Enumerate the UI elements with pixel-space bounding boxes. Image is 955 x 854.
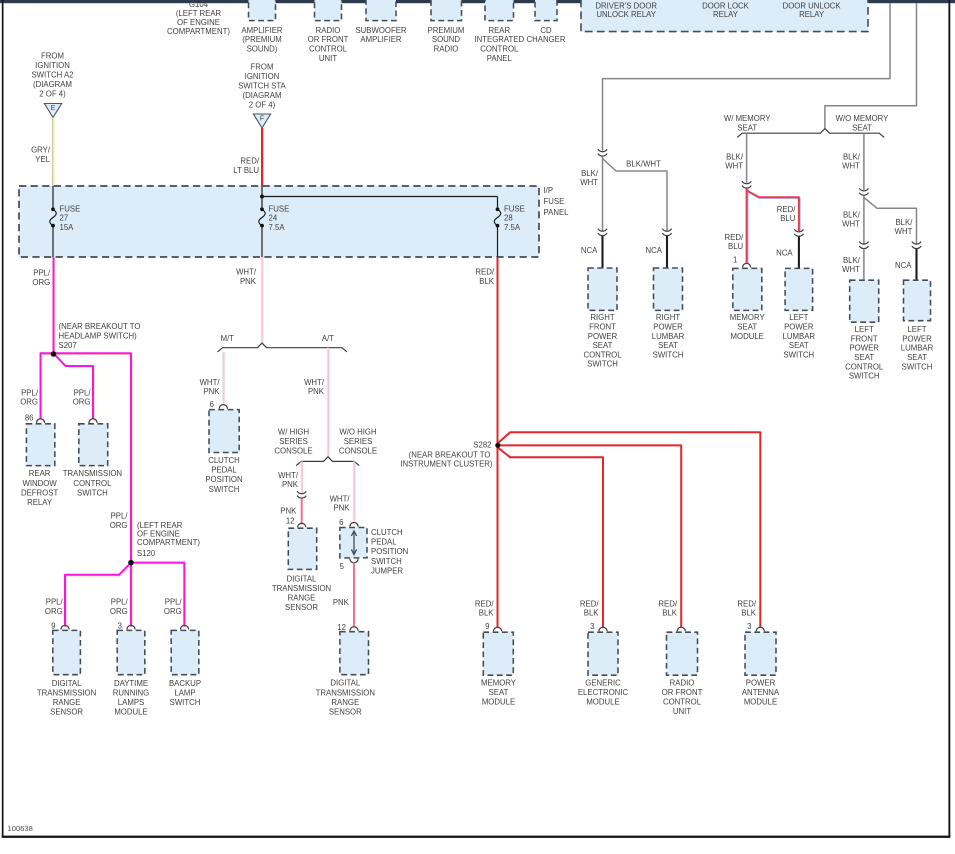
svg-text:SERIES: SERIES (279, 437, 308, 446)
svg-text:CONTROL: CONTROL (480, 45, 519, 54)
svg-text:PPL/: PPL/ (111, 512, 129, 521)
svg-text:SEAT: SEAT (852, 123, 872, 132)
svg-text:(NEAR BREAKOUT TO: (NEAR BREAKOUT TO (409, 451, 491, 460)
svg-text:SOUND): SOUND) (247, 45, 278, 54)
svg-text:CONTROL: CONTROL (309, 45, 348, 54)
svg-text:RIGHT: RIGHT (656, 313, 680, 322)
svg-text:OR FRONT: OR FRONT (308, 35, 349, 44)
svg-text:SWITCH A2: SWITCH A2 (31, 71, 73, 80)
label NCA (4) (895, 261, 912, 270)
svg-text:RANGE: RANGE (288, 594, 316, 603)
svg-text:TRANSMISSION: TRANSMISSION (63, 469, 122, 478)
wire RED/BLK branch to radio or front control unit (500, 445, 681, 627)
svg-text:FUSE: FUSE (60, 204, 81, 213)
connector w/o memory split (859, 188, 868, 195)
svg-text:TRANSMISSION: TRANSMISSION (37, 688, 96, 697)
svg-text:LAMPS: LAMPS (118, 698, 144, 707)
svg-text:ORG: ORG (110, 521, 128, 530)
svg-text:FUSE: FUSE (544, 197, 565, 206)
pin 5 clutch pedal position switch jumper (340, 562, 345, 571)
connector triangle F (253, 114, 270, 128)
wire NCA to right front power seat control switch (601, 236, 603, 268)
label BLK/WHT w/ memory (725, 152, 744, 170)
component clutch pedal position switch (205, 410, 242, 494)
svg-text:ANTENNA: ANTENNA (742, 688, 780, 697)
svg-text:RANGE: RANGE (53, 698, 81, 707)
svg-text:POWER: POWER (746, 678, 776, 687)
svg-text:MEMORY: MEMORY (481, 678, 517, 687)
svg-text:UNLOCK RELAY: UNLOCK RELAY (596, 10, 656, 19)
svg-text:PPL/: PPL/ (165, 598, 183, 607)
label PPL/ORG (to S120) (110, 512, 129, 530)
svg-text:7.5A: 7.5A (269, 223, 286, 232)
svg-text:SWITCH: SWITCH (170, 698, 201, 707)
svg-text:3: 3 (118, 622, 122, 631)
svg-text:WHT: WHT (842, 161, 860, 170)
label I/P FUSE PANEL (544, 186, 570, 217)
node S120 junction dot (128, 560, 134, 566)
svg-text:POWER: POWER (849, 344, 879, 353)
label BLK/WHT (branch) (895, 218, 914, 236)
svg-text:SWITCH: SWITCH (902, 362, 933, 371)
label RED/BLK (main) (475, 267, 494, 286)
pin 9 digital transmission range sensor (51, 622, 55, 631)
svg-text:SEAT: SEAT (737, 123, 757, 132)
wire jumper to fuse 28 (262, 196, 498, 198)
svg-text:SWITCH: SWITCH (849, 372, 880, 381)
wire NCA to right power lumbar seat switch (666, 236, 668, 268)
wire RED/BLK from fuse 28 through S282 to memory seat module (497, 257, 499, 627)
pin arc digital transmission range sensor (mid) (298, 523, 306, 527)
svg-text:PNK: PNK (308, 387, 325, 396)
svg-text:15A: 15A (60, 223, 75, 232)
svg-text:12: 12 (337, 623, 346, 632)
svg-text:(PREMIUM: (PREMIUM (242, 35, 281, 44)
svg-text:WINDOW: WINDOW (22, 479, 57, 488)
pin 12 digital transmission range sensor (mid) (286, 517, 295, 526)
svg-text:FUSE: FUSE (504, 204, 525, 213)
svg-text:REAR: REAR (29, 469, 51, 478)
svg-text:RELAY: RELAY (799, 10, 825, 19)
label NCA (2) (646, 246, 663, 255)
pin 3 generic electronic module (590, 622, 594, 631)
svg-text:PPL/: PPL/ (21, 388, 39, 397)
svg-text:WHT: WHT (580, 178, 598, 187)
svg-text:CLUTCH: CLUTCH (208, 456, 240, 465)
label RED/BLK (generic electronic module) (580, 600, 599, 618)
svg-text:BLK: BLK (584, 608, 600, 617)
wire BLK/WHT branch to left power lumbar seat switch (2) (864, 198, 917, 244)
svg-text:RADIO: RADIO (670, 678, 695, 687)
svg-text:POSITION: POSITION (205, 475, 242, 484)
svg-text:POWER: POWER (784, 323, 814, 332)
svg-text:NCA: NCA (581, 246, 598, 255)
svg-text:SEAT: SEAT (658, 341, 678, 350)
svg-text:2 OF 4): 2 OF 4) (249, 101, 276, 110)
svg-text:CD: CD (540, 26, 552, 35)
label PNK (w/o high) (333, 598, 350, 607)
wire BLK/WHT branch to right power lumbar seat switch (603, 159, 668, 231)
svg-text:SWITCH: SWITCH (77, 489, 108, 498)
svg-text:HEADLAMP SWITCH): HEADLAMP SWITCH) (59, 331, 138, 340)
svg-text:W/O MEMORY: W/O MEMORY (836, 114, 890, 123)
pin arc memory seat module (lower) (493, 627, 501, 631)
connector above left power lumbar seat switch (2) (912, 242, 921, 249)
svg-text:SWITCH: SWITCH (371, 557, 402, 566)
pin 3 daytime running lamps module (118, 622, 122, 631)
svg-text:MEMORY: MEMORY (730, 313, 766, 322)
svg-text:S282: S282 (473, 441, 491, 450)
wire RED/BLK branch to power antenna module (498, 432, 761, 627)
label PPL/ORG (transmission control switch) (73, 388, 92, 406)
svg-text:M/T: M/T (221, 334, 235, 343)
svg-text:SEAT: SEAT (593, 341, 613, 350)
component digital transmission range sensor (left) (37, 630, 96, 716)
svg-text:BLK/WHT: BLK/WHT (626, 160, 661, 169)
wire PPL/ORG to daytime running lamps module (131, 563, 132, 627)
component right power lumbar seat switch (652, 268, 685, 359)
label W/O MEMORY SEAT (836, 114, 890, 132)
svg-text:(DIAGRAM: (DIAGRAM (243, 91, 282, 100)
svg-text:WHT/: WHT/ (278, 471, 299, 480)
pin 12 digital transmission range sensor (bottom) (337, 623, 346, 632)
pin arc generic electronic module (599, 627, 607, 631)
svg-text:PNK: PNK (333, 598, 350, 607)
svg-text:2 OF 4): 2 OF 4) (39, 90, 66, 99)
svg-text:ORG: ORG (45, 607, 63, 616)
svg-text:3: 3 (590, 622, 594, 631)
connector above left power lumbar seat switch (1) (794, 229, 803, 236)
connector on BLK/WHT wire (598, 149, 607, 156)
svg-text:27: 27 (60, 214, 69, 223)
fuse F28 7.5A (494, 204, 525, 232)
svg-text:ORG: ORG (20, 398, 38, 407)
pin 1 memory seat module (733, 256, 737, 265)
svg-text:RUNNING: RUNNING (113, 688, 149, 697)
svg-text:PPL/: PPL/ (33, 268, 51, 277)
label NCA (1) (581, 246, 598, 255)
component digital transmission range sensor (mid) (272, 528, 331, 612)
component radio or front control unit (bottom) (662, 632, 703, 716)
svg-text:GENERIC: GENERIC (585, 678, 621, 687)
svg-text:FRONT: FRONT (589, 323, 616, 332)
connector above right front power seat control switch (598, 229, 607, 236)
svg-text:RADIO: RADIO (316, 26, 341, 35)
wire PPL/ORG to backup lamp switch (131, 563, 186, 628)
fuse F27 15A (50, 204, 81, 232)
svg-text:ORG: ORG (73, 398, 91, 407)
wire BLK/WHT into left front power seat control switch (863, 249, 865, 280)
svg-text:PNK: PNK (333, 503, 350, 512)
svg-text:WHT: WHT (725, 161, 743, 170)
svg-text:PNK: PNK (280, 506, 297, 515)
label WHT/PNK (A/T) (304, 378, 325, 396)
component memory seat module (upper) (730, 268, 766, 340)
label BLK/WHT (straight, mid) (842, 210, 861, 228)
component right front power seat control switch (583, 268, 622, 369)
label PPL/ORG (defrost relay) (20, 388, 39, 406)
svg-text:PEDAL: PEDAL (371, 538, 397, 547)
svg-text:LUMBAR: LUMBAR (783, 332, 816, 341)
svg-text:SENSOR: SENSOR (50, 707, 83, 716)
svg-text:WHT/: WHT/ (236, 267, 257, 276)
svg-text:BLK: BLK (741, 608, 757, 617)
wire BLK/WHT w/ memory seat (746, 133, 748, 183)
svg-text:ORG: ORG (110, 607, 128, 616)
svg-text:BLK/: BLK/ (843, 152, 861, 161)
junction dot above fuse 24 (260, 195, 264, 199)
pin 6 clutch pedal position switch jumper (339, 518, 343, 527)
svg-text:BLK/: BLK/ (895, 218, 913, 227)
component cd changer (527, 0, 566, 44)
svg-text:PPL/: PPL/ (46, 598, 64, 607)
label PNK (w/ high) (280, 506, 297, 515)
label RED/LT BLU (233, 157, 260, 175)
svg-text:GRY/: GRY/ (31, 146, 51, 155)
component digital transmission range sensor (bottom) (316, 632, 375, 717)
svg-text:6: 6 (339, 518, 343, 527)
svg-text:POWER: POWER (902, 334, 932, 343)
I/P fuse panel box (19, 186, 539, 257)
svg-text:RELAY: RELAY (713, 10, 739, 19)
svg-text:ORG: ORG (164, 607, 182, 616)
pin 86 rear window defrost relay (25, 413, 34, 422)
svg-text:CONTROL: CONTROL (583, 350, 622, 359)
svg-text:SENSOR: SENSOR (285, 603, 318, 612)
label RED/BLK (radio) (658, 600, 677, 618)
svg-text:NCA: NCA (646, 246, 663, 255)
svg-text:YEL: YEL (35, 155, 50, 164)
svg-text:W/O HIGH: W/O HIGH (339, 428, 376, 437)
svg-text:RANGE: RANGE (331, 698, 359, 707)
svg-text:RED/: RED/ (240, 157, 259, 166)
svg-text:MODULE: MODULE (731, 332, 764, 341)
svg-text:WHT/: WHT/ (330, 495, 351, 504)
svg-text:PPL/: PPL/ (74, 388, 92, 397)
component generic electronic module (578, 632, 629, 706)
svg-text:100638: 100638 (8, 824, 33, 833)
svg-text:RED/: RED/ (725, 233, 744, 242)
svg-text:DIGITAL: DIGITAL (330, 679, 360, 688)
wire WHT/PNK from fuse 24 (261, 257, 262, 343)
svg-text:REAR: REAR (488, 26, 510, 35)
node G104 label (167, 0, 230, 36)
label RED/BLU (straight) (725, 233, 744, 251)
wire PPL/ORG from S207 to S120 (54, 353, 133, 564)
label PPL/ORG (main) (32, 268, 51, 287)
label WHT/PNK (M/T) (200, 378, 221, 396)
component left power lumbar seat switch (1) (783, 268, 816, 359)
wire BLK/WHT w/o memory seat (863, 133, 865, 190)
svg-text:F: F (260, 116, 264, 123)
wire lead inside panel to junction (261, 186, 263, 197)
label BLK/WHT (on branch) (626, 160, 661, 169)
connector BLK/WHT to RED/BLU (742, 181, 751, 188)
svg-text:WHT: WHT (842, 219, 860, 228)
svg-text:RIGHT: RIGHT (590, 313, 614, 322)
svg-text:WHT/: WHT/ (200, 378, 221, 387)
label W/ MEMORY SEAT (724, 114, 771, 132)
svg-text:CHANGER: CHANGER (527, 35, 566, 44)
component clutch pedal position switch jumper (340, 528, 408, 576)
label BLK/WHT (lower) (842, 256, 861, 274)
pin arc power antenna module (756, 627, 764, 631)
svg-text:3: 3 (747, 622, 751, 631)
svg-text:RED/: RED/ (777, 205, 796, 214)
svg-text:INTEGRATED: INTEGRATED (474, 35, 524, 44)
pin arc clutch pedal position switch (219, 405, 227, 409)
svg-text:DEFROST: DEFROST (21, 489, 58, 498)
node F label: from ignition switch STA (238, 63, 286, 110)
component transmission control switch (63, 424, 122, 498)
wire into fuse 27 (52, 186, 54, 207)
svg-text:AMPLIFIER: AMPLIFIER (360, 35, 402, 44)
wire RED/BLU to memory seat module (747, 188, 748, 263)
svg-text:PANEL: PANEL (487, 54, 513, 63)
label BLK/WHT w/o memory (842, 152, 861, 170)
label PPL/ORG (3) (110, 598, 129, 616)
svg-text:LT BLU: LT BLU (233, 166, 259, 175)
svg-text:DIGITAL: DIGITAL (52, 679, 82, 688)
component premium sound radio (428, 0, 465, 54)
label WHT/PNK (w/ high) (278, 471, 299, 489)
label M/T (221, 334, 235, 343)
wire WHT/PNK w/o high branch (353, 461, 354, 522)
svg-text:UNIT: UNIT (319, 54, 337, 63)
svg-text:CONSOLE: CONSOLE (339, 447, 377, 456)
pin arc jumper bottom (350, 559, 358, 563)
wire PPL/ORG to transmission control switch (54, 353, 95, 420)
svg-text:I/P: I/P (544, 186, 554, 195)
wire PPL/ORG to rear window defrost relay (41, 353, 55, 420)
svg-text:POWER: POWER (653, 323, 683, 332)
svg-text:9: 9 (485, 622, 489, 631)
pin arc memory seat module (743, 263, 751, 267)
svg-text:ELECTRONIC: ELECTRONIC (578, 688, 629, 697)
svg-text:SEAT: SEAT (737, 323, 757, 332)
pin arc rear window defrost relay (36, 419, 44, 423)
top window bar (0, 0, 955, 3)
svg-text:PNK: PNK (203, 387, 220, 396)
svg-text:SWITCH: SWITCH (209, 485, 240, 494)
svg-text:OF ENGINE: OF ENGINE (177, 18, 220, 27)
wire WHT/PNK A/T branch (327, 348, 328, 457)
wire below fuse 24 (261, 228, 263, 258)
page border right (948, 0, 950, 838)
label A/T (322, 334, 334, 343)
svg-text:BLK: BLK (479, 608, 495, 617)
pin arc backup lamp switch (180, 625, 188, 629)
svg-text:TRANSMISSION: TRANSMISSION (272, 584, 331, 593)
svg-text:FUSE: FUSE (269, 204, 290, 213)
relay box: drivers door unlock relay / door lock relay / door unlock relay (581, 0, 868, 32)
label WHT/PNK (main) (236, 267, 257, 286)
svg-text:OR FRONT: OR FRONT (662, 688, 703, 697)
wire GRY/YEL (52, 118, 53, 187)
svg-text:WHT/: WHT/ (304, 378, 325, 387)
svg-text:S207: S207 (59, 341, 77, 350)
svg-text:S120: S120 (137, 549, 156, 558)
pin 3 power antenna module (747, 622, 751, 631)
wire into fuse 28 (497, 197, 499, 208)
svg-text:LEFT: LEFT (789, 313, 808, 322)
svg-text:FRONT: FRONT (851, 334, 878, 343)
svg-text:MODULE: MODULE (114, 707, 147, 716)
pin 6 clutch pedal position switch (210, 400, 214, 409)
label RED/BLU (branch) (777, 205, 796, 223)
component left front power seat control switch (845, 280, 884, 380)
svg-text:CONTROL: CONTROL (663, 697, 702, 706)
component rear window defrost relay (21, 424, 58, 507)
pin arc radio or front control unit (677, 627, 685, 631)
svg-text:BLK: BLK (479, 277, 495, 286)
svg-text:LAMP: LAMP (174, 688, 195, 697)
svg-text:TRANSMISSION: TRANSMISSION (316, 688, 375, 697)
svg-text:SEAT: SEAT (789, 341, 809, 350)
svg-text:POSITION: POSITION (371, 547, 408, 556)
svg-text:MODULE: MODULE (744, 697, 777, 706)
svg-text:MODULE: MODULE (482, 697, 515, 706)
split bracket w/ high series console - w/o high series console (296, 457, 359, 466)
component daytime running lamps module (113, 630, 149, 716)
svg-text:LEFT: LEFT (907, 325, 926, 334)
svg-text:PANEL: PANEL (544, 208, 570, 217)
split bracket w/ memory seat - w/o memory seat (737, 129, 884, 138)
svg-text:PNK: PNK (282, 480, 299, 489)
label RED/BLK (memory seat module) (475, 600, 494, 618)
svg-text:A/T: A/T (322, 334, 334, 343)
pin arc jumper top (350, 523, 358, 527)
wire RED/BLU branch to left power lumbar seat switch (747, 191, 801, 232)
svg-text:CONTROL: CONTROL (73, 479, 112, 488)
svg-text:IGNITION: IGNITION (245, 72, 280, 81)
svg-text:NCA: NCA (776, 249, 793, 258)
component memory seat module (lower) (481, 632, 517, 706)
component subwoofer amplifier (355, 0, 406, 44)
connector above right power lumbar seat switch (662, 229, 671, 236)
svg-text:RADIO: RADIO (434, 45, 459, 54)
wire WHT/PNK w/ high branch (301, 461, 302, 493)
svg-text:BLK/: BLK/ (843, 256, 861, 265)
wire BLK/WHT feed to right power seat switches (603, 3, 891, 151)
fuse F24 7.5A (259, 204, 290, 232)
component radio or front control unit (top) (308, 0, 349, 63)
node S207 label (59, 322, 141, 350)
svg-text:FROM: FROM (251, 63, 274, 72)
svg-text:CONSOLE: CONSOLE (274, 447, 312, 456)
svg-text:DAYTIME: DAYTIME (114, 679, 148, 688)
wire PPL/ORG to digital transmission range sensor (left) (65, 563, 132, 628)
svg-text:28: 28 (504, 214, 513, 223)
svg-text:WHT: WHT (895, 227, 913, 236)
component amplifier (premium sound) (241, 0, 283, 54)
label WHT/PNK (w/o high) (330, 495, 351, 513)
svg-text:SERIES: SERIES (344, 437, 373, 446)
wire RED/LT BLU (262, 128, 263, 186)
wire RED/BLK branch to generic electronic module (498, 448, 603, 628)
svg-text:SENSOR: SENSOR (329, 708, 362, 717)
svg-text:SWITCH: SWITCH (783, 350, 814, 359)
svg-text:MODULE: MODULE (586, 697, 619, 706)
svg-text:JUMPER: JUMPER (371, 566, 403, 575)
label GRY/YEL (31, 146, 51, 164)
svg-text:ORG: ORG (32, 278, 50, 287)
svg-text:W/ HIGH: W/ HIGH (278, 428, 309, 437)
svg-text:CONTROL: CONTROL (845, 362, 884, 371)
svg-text:SWITCH STA: SWITCH STA (238, 82, 286, 91)
node S120 label (137, 521, 200, 558)
svg-text:PREMIUM: PREMIUM (428, 26, 465, 35)
